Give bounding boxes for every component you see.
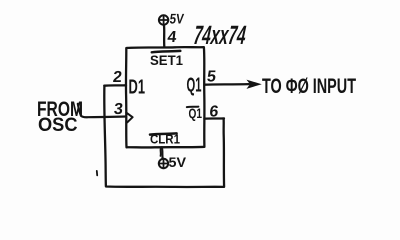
svg-text:5V: 5V — [169, 154, 187, 170]
svg-text:5: 5 — [206, 68, 217, 86]
svg-text:74xx74: 74xx74 — [191, 20, 249, 50]
svg-text:Q1: Q1 — [187, 75, 202, 97]
svg-text:CLR1: CLR1 — [150, 132, 180, 147]
svg-text:2: 2 — [112, 68, 123, 86]
svg-text:D1: D1 — [129, 77, 146, 99]
svg-text:4: 4 — [167, 28, 178, 46]
svg-text:Q1: Q1 — [189, 106, 203, 121]
svg-text:OSC: OSC — [38, 114, 78, 136]
svg-text:SET1: SET1 — [150, 52, 183, 68]
svg-text:3: 3 — [113, 100, 124, 118]
svg-text:5V: 5V — [169, 10, 185, 26]
svg-text:TO ΦØ INPUT: TO ΦØ INPUT — [262, 75, 356, 98]
